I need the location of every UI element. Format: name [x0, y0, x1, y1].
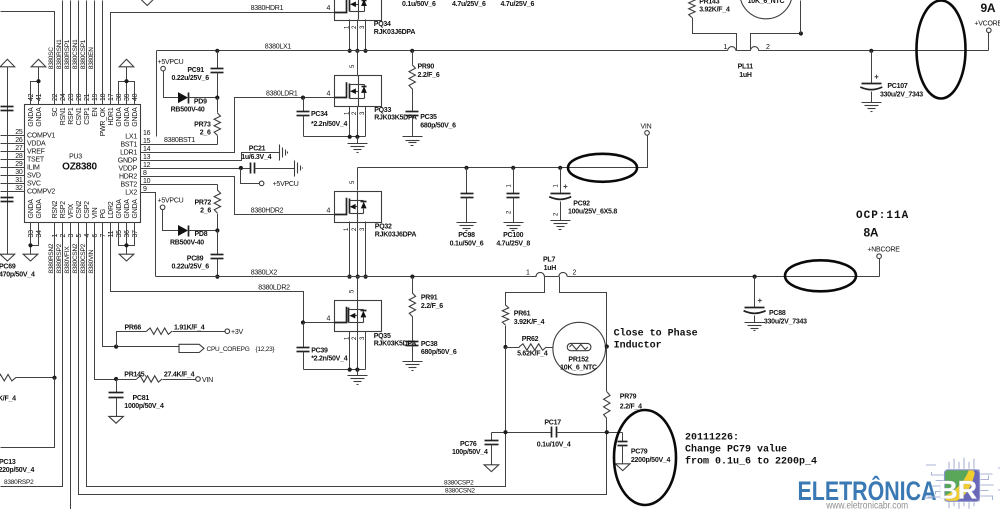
svg-text:20: 20	[76, 93, 83, 101]
svg-text:4.7u/25V_6: 4.7u/25V_6	[452, 1, 486, 8]
svg-text:+5VPCU: +5VPCU	[273, 181, 299, 188]
ground PC92 earth	[551, 220, 571, 222]
thermistor PR152 circle	[553, 322, 606, 375]
wire LX1 rail after PL11	[759, 50, 989, 52]
svg-text:2.2/F_4: 2.2/F_4	[620, 403, 642, 410]
svg-text:33: 33	[28, 230, 35, 238]
svg-text:VDDP: VDDP	[119, 166, 138, 173]
capacitor PC21 on VDDP	[250, 163, 252, 174]
wire LX1 to pin 16	[156, 51, 158, 137]
svg-text:PQ35: PQ35	[374, 333, 391, 340]
svg-text:GNDP: GNDP	[118, 158, 138, 165]
inductor PL7 bumps	[536, 272, 544, 276]
svg-text:2200p/50V_4: 2200p/50V_4	[631, 457, 671, 464]
wire 8380CSP1 pin 21	[86, 1, 88, 105]
svg-text:PC69: PC69	[0, 264, 16, 271]
wire to +VCORE terminal	[988, 33, 990, 51]
svg-text:Change PC79 value: Change PC79 value	[685, 444, 787, 456]
svg-text:PR143: PR143	[699, 0, 720, 5]
svg-text:8380RSN2: 8380RSN2	[48, 243, 55, 273]
svg-text:14: 14	[143, 146, 151, 153]
wire to +NBCORE terminal	[879, 259, 881, 277]
ground PC88 earth	[745, 322, 765, 324]
svg-text:LX1: LX1	[125, 134, 137, 141]
wire NTC drop	[800, 1, 802, 34]
svg-text:1: 1	[52, 234, 59, 238]
svg-text:GNDA: GNDA	[124, 199, 131, 219]
svg-text:RSP1: RSP1	[68, 107, 75, 125]
svg-text:8380CSP2: 8380CSP2	[80, 243, 87, 273]
svg-text:PC38: PC38	[421, 341, 438, 348]
svg-text:LDR2: LDR2	[108, 201, 115, 218]
junction pins 33-34	[28, 243, 32, 247]
wire 8380CSN2 pin 5 down and right	[79, 223, 607, 495]
svg-text:TSET: TSET	[27, 157, 45, 164]
svg-text:2: 2	[573, 270, 577, 277]
svg-text:21: 21	[84, 93, 91, 101]
svg-text:2_6: 2_6	[200, 208, 211, 215]
svg-text:{12,23}: {12,23}	[256, 346, 276, 353]
PU3 left pin numbers	[15, 129, 23, 192]
wire PL7 right sense tap	[560, 277, 607, 347]
junctions PQ35 source	[348, 368, 352, 372]
wire pin 36 GNDA to ground	[126, 223, 128, 255]
thermistor circle phase1 top	[740, 0, 793, 19]
svg-text:BST2: BST2	[120, 182, 137, 189]
svg-text:from 0.1u_6 to 2200p_4: from 0.1u_6 to 2200p_4	[685, 456, 817, 468]
svg-text:27.4K/F_4: 27.4K/F_4	[164, 372, 195, 379]
svg-text:*2.2n/50V_4: *2.2n/50V_4	[311, 356, 348, 363]
svg-text:6: 6	[92, 234, 99, 238]
wire RSN2 exit left	[1, 378, 55, 448]
junction PC88 at LX2 rail	[753, 275, 757, 279]
capacitor PC88 polarized	[754, 277, 756, 308]
highlight ellipse on VIN rail	[568, 154, 637, 182]
svg-text:PR79: PR79	[620, 393, 637, 400]
svg-text:PC89: PC89	[187, 255, 204, 262]
junction PC100	[511, 166, 515, 170]
svg-text:GNDA: GNDA	[132, 107, 139, 127]
wire PR66 branch	[117, 332, 147, 347]
wire PQ32 drain pin 5 to VIN rail	[357, 168, 359, 191]
diode PD9	[178, 92, 188, 103]
svg-text:RB500V-40: RB500V-40	[170, 239, 204, 246]
svg-text:Inductor: Inductor	[614, 339, 662, 351]
ground GNDA top-right (pointing up)	[119, 59, 134, 67]
junction VDDP	[239, 166, 243, 170]
svg-text:PC88: PC88	[769, 310, 786, 317]
svg-text:GNDA: GNDA	[132, 199, 139, 219]
svg-text:GNDA: GNDA	[36, 107, 43, 127]
svg-text:PD9: PD9	[194, 98, 207, 105]
svg-text:PR73: PR73	[194, 121, 211, 128]
svg-text:680p/50V_6: 680p/50V_6	[421, 349, 457, 356]
resistor PR61	[502, 305, 508, 325]
wire PQ35 source to ground rail	[304, 369, 366, 371]
wire PC17 to CSN2 node	[557, 432, 623, 434]
junction PC89 at LX2	[215, 275, 219, 279]
svg-text:8380VFIX: 8380VFIX	[64, 246, 71, 274]
svg-text:GNDA: GNDA	[36, 199, 43, 219]
wires PQ32 pins 1-3 to LX2	[349, 222, 351, 277]
junction PR91 top at LX2	[410, 275, 414, 279]
ground PQ33 earth	[348, 143, 368, 145]
junction PC107 at VCORE rail	[869, 49, 873, 53]
wire GNDP pin 13 to ground	[141, 153, 280, 161]
junction pins 38-39-40	[124, 79, 128, 83]
svg-text:4: 4	[327, 5, 331, 12]
svg-text:22: 22	[52, 93, 59, 101]
ground PC38 earth	[403, 361, 423, 363]
svg-text:VFIX: VFIX	[68, 203, 75, 218]
svg-text:28: 28	[15, 153, 23, 160]
svg-text:VIN: VIN	[202, 377, 213, 384]
svg-text:9A: 9A	[981, 1, 996, 15]
svg-text:26: 26	[15, 137, 23, 144]
terminal VIN top	[645, 131, 650, 136]
junction PR152 right	[605, 344, 609, 348]
svg-text:4: 4	[327, 316, 331, 323]
junction PR61 PR62	[503, 345, 507, 349]
ground PQ35 earth	[348, 375, 368, 377]
inductor PL11 bumps	[728, 47, 736, 51]
capacitor PC81	[116, 380, 118, 393]
svg-text:PC81: PC81	[133, 395, 150, 402]
svg-text:680p/50V_6: 680p/50V_6	[420, 122, 456, 129]
wire LX2 rail after PL7	[568, 276, 880, 278]
svg-text:5.62K/F_4: 5.62K/F_4	[517, 350, 548, 357]
junction PD8 PR72 PC89	[215, 228, 219, 232]
svg-text:SC: SC	[52, 107, 59, 116]
wire PQ35 drain pin 5 to LX2	[357, 277, 359, 301]
wire pin 33 GNDA to ground	[30, 223, 32, 255]
resistor PR91	[412, 277, 414, 294]
terminal +5VPCU phase1	[161, 66, 166, 71]
terminal VIN	[196, 377, 201, 382]
svg-text:PL11: PL11	[738, 63, 754, 70]
svg-text:24: 24	[60, 93, 67, 101]
wire PR61 junction down to CSP2 node	[505, 348, 507, 433]
svg-text:PC100: PC100	[503, 232, 524, 239]
svg-text:RJK03K5DPA: RJK03K5DPA	[374, 340, 417, 347]
svg-text:VIN: VIN	[641, 124, 652, 131]
svg-text:15: 15	[143, 138, 151, 145]
svg-text:PR72: PR72	[194, 199, 211, 206]
ground PC98 earth	[457, 222, 477, 224]
junction pins 35-36-37	[124, 243, 128, 247]
ground GNDA bottom-right	[119, 254, 134, 261]
wire pin 41 GNDA to ground	[38, 67, 40, 105]
svg-text:1uH: 1uH	[739, 72, 752, 79]
svg-text:+3V: +3V	[231, 329, 243, 336]
thermistor PR152 element box	[567, 343, 591, 350]
junction VIN sense	[114, 377, 118, 381]
svg-text:+NBCORE: +NBCORE	[867, 246, 900, 253]
highlight ellipse NBCORE	[785, 260, 856, 291]
ground PC81	[109, 416, 124, 423]
svg-text:PR61: PR61	[514, 311, 531, 318]
svg-text:GNDA: GNDA	[28, 107, 35, 127]
svg-text:PR90: PR90	[418, 64, 435, 71]
output tag CPU_COREPG	[179, 344, 204, 352]
svg-text:PC39: PC39	[311, 348, 328, 355]
svg-text:35: 35	[116, 230, 123, 238]
svg-text:0.1u/10V_4: 0.1u/10V_4	[537, 441, 571, 448]
wire to PQ33 ground	[357, 137, 359, 144]
svg-text:GNDA: GNDA	[28, 199, 35, 219]
capacitor PC91	[217, 51, 219, 69]
svg-text:8380CSN2: 8380CSN2	[445, 488, 475, 495]
ground bottom of left rail	[0, 254, 15, 261]
capacitor PC39	[303, 323, 305, 348]
svg-text:1u/6.3V_4: 1u/6.3V_4	[241, 154, 271, 161]
svg-text:34: 34	[36, 230, 43, 238]
svg-text:100u/25V_6X5.8: 100u/25V_6X5.8	[568, 209, 617, 216]
wire 8380LX2 rail	[156, 276, 537, 278]
svg-text:LDR1: LDR1	[120, 150, 137, 157]
wire PC21 to ground	[255, 168, 295, 170]
capacitor PC79	[622, 433, 624, 442]
svg-text:K/F_4: K/F_4	[0, 395, 16, 402]
wire 8380RSP1 pin 23	[70, 1, 72, 105]
svg-text:2: 2	[766, 44, 770, 51]
svg-text:BR: BR	[939, 477, 978, 505]
svg-text:9: 9	[143, 186, 147, 193]
wire +5VPCU to PD8	[163, 210, 179, 231]
svg-text:RSP2: RSP2	[60, 201, 67, 219]
svg-text:PC92: PC92	[573, 200, 590, 207]
svg-text:1: 1	[526, 270, 530, 277]
wire 8380LDR2 pin 11 down right	[111, 223, 335, 323]
capacitor PC34	[303, 98, 305, 112]
svg-text:20111226:: 20111226:	[685, 433, 739, 444]
svg-text:CSN2: CSN2	[76, 200, 83, 218]
svg-text:PC21: PC21	[249, 146, 266, 153]
svg-text:29: 29	[15, 161, 23, 168]
wire 8380SC from left edge to pin 22	[1, 12, 55, 105]
svg-text:+VCORE: +VCORE	[974, 20, 1000, 27]
svg-text:0.22u/25V_6: 0.22u/25V_6	[172, 264, 210, 271]
svg-text:3.92K/F_4: 3.92K/F_4	[514, 319, 545, 326]
svg-text:0.1u/50V_6: 0.1u/50V_6	[450, 240, 484, 247]
svg-text:10: 10	[143, 178, 151, 185]
svg-text:8380CSP2: 8380CSP2	[444, 479, 474, 486]
junctions PQ32 at LX2	[347, 275, 351, 279]
wire LX1 rail between PL11 bumps	[737, 50, 751, 52]
svg-text:8380EN: 8380EN	[88, 47, 95, 70]
wire pin 34 GNDA jog	[31, 223, 39, 246]
capacitor PC17	[551, 427, 553, 438]
svg-text:1uH: 1uH	[544, 265, 557, 272]
svg-text:0.1u/50V_6: 0.1u/50V_6	[402, 1, 436, 8]
wire CSP2 node to PC17	[492, 432, 552, 434]
left compensation rail vertical	[7, 67, 9, 255]
svg-text:8380RSN1: 8380RSN1	[56, 39, 63, 69]
ground PC79	[615, 464, 630, 471]
ground top of left rail (pointing up)	[0, 59, 15, 67]
svg-text:PC107: PC107	[887, 83, 908, 90]
resistor partial at left edge	[0, 375, 16, 381]
wires PQ33 pins 1-3 down	[349, 107, 351, 137]
terminal +VCORE	[987, 28, 992, 33]
svg-text:4.7u/25V_8: 4.7u/25V_8	[496, 240, 530, 247]
junctions PQ33 source	[348, 135, 352, 139]
svg-text:PU3: PU3	[69, 154, 82, 161]
PU3 right pin names	[118, 134, 138, 197]
svg-text:470p/50V_4: 470p/50V_4	[0, 271, 35, 278]
wire PQ33 source to ground rail	[304, 136, 366, 138]
wire 8380LX1 rail	[157, 50, 728, 52]
capacitor PC107 polarized	[871, 51, 873, 84]
svg-text:8380VIN: 8380VIN	[88, 249, 95, 273]
svg-text:11: 11	[108, 230, 115, 237]
svg-text:HDR2: HDR2	[119, 174, 137, 181]
svg-text:8380RSP2: 8380RSP2	[56, 243, 63, 273]
capacitor PC98	[466, 168, 468, 194]
wire LX2 rail between PL7 bumps	[545, 276, 559, 278]
wire VDDP pin 12	[141, 168, 251, 170]
svg-text:CSP2: CSP2	[84, 201, 91, 219]
wire pin 42 GNDA jog	[31, 82, 39, 105]
svg-text:EN: EN	[92, 107, 99, 116]
capacitor PC100	[513, 168, 515, 194]
svg-text:18: 18	[100, 93, 107, 101]
svg-text:1.91K/F_4: 1.91K/F_4	[174, 324, 205, 331]
svg-text:1000p/50V_4: 1000p/50V_4	[124, 403, 164, 410]
svg-text:COMPV1: COMPV1	[27, 133, 55, 140]
svg-text:PC34: PC34	[311, 111, 328, 118]
svg-text:8380LX2: 8380LX2	[251, 269, 278, 276]
highlight ellipse around PC79	[614, 410, 676, 505]
resistor PR145	[137, 376, 162, 382]
wire 8380BST1 pin 15	[141, 144, 218, 146]
ground PC35 earth	[403, 136, 423, 138]
svg-text:23: 23	[68, 93, 75, 101]
svg-text:CPU_COREPG: CPU_COREPG	[207, 346, 250, 353]
wire to PQ35 ground	[357, 370, 359, 376]
svg-text:8380CSN2: 8380CSN2	[72, 243, 79, 273]
svg-text:2.2/F_6: 2.2/F_6	[418, 72, 440, 79]
junction PC92	[558, 166, 562, 170]
svg-text:8380HDR1: 8380HDR1	[251, 5, 284, 12]
svg-text:8: 8	[143, 170, 147, 177]
svg-text:10K_6_NTC: 10K_6_NTC	[748, 0, 785, 5]
wire 8380CSP2 pin 4 down and right	[87, 223, 506, 487]
svg-text:330u/2V_7343: 330u/2V_7343	[880, 91, 923, 98]
svg-text:13: 13	[143, 154, 151, 161]
svg-text:32: 32	[15, 185, 23, 192]
wire pin 37 GNDA jog	[127, 223, 135, 246]
PU3 bottom pin names	[28, 199, 139, 219]
svg-text:4: 4	[327, 90, 331, 97]
svg-text:8380CSN1: 8380CSN1	[72, 39, 79, 69]
svg-text:RB500V-40: RB500V-40	[171, 106, 205, 113]
resistor PR79	[606, 347, 608, 392]
svg-text:www.eletronicabr.com: www.eletronicabr.com	[825, 501, 908, 509]
capacitor PC35	[412, 89, 414, 112]
svg-text:PC79: PC79	[631, 449, 648, 456]
svg-text:8380HDR2: 8380HDR2	[251, 208, 284, 215]
svg-text:PR91: PR91	[421, 295, 438, 302]
svg-text:2.2/F_6: 2.2/F_6	[421, 303, 443, 310]
terminal +5VPCU VDDP	[259, 181, 264, 186]
svg-text:VIN: VIN	[92, 207, 99, 218]
svg-text:VDDA: VDDA	[27, 141, 46, 148]
wire 8380CSN1 pin 20	[78, 1, 80, 105]
svg-text:PR66: PR66	[125, 324, 142, 331]
wire PR62 to PR152	[547, 347, 553, 349]
wire 8380RSN1 pin 24	[62, 1, 64, 105]
svg-text:8380SC: 8380SC	[48, 47, 55, 70]
svg-text:38: 38	[116, 93, 123, 101]
wire LX2 pin 9 down	[141, 193, 156, 277]
svg-text:8380BST1: 8380BST1	[164, 137, 195, 144]
svg-text:RJK03J6DPA: RJK03J6DPA	[375, 232, 417, 239]
wire pin 35 GNDA jog	[119, 223, 127, 246]
svg-text:8380LDR2: 8380LDR2	[258, 285, 290, 292]
wire pin 38 GNDA jog	[119, 82, 127, 105]
svg-text:4: 4	[84, 234, 91, 238]
diode PD8	[178, 225, 188, 236]
junction PC91 top at LX1	[215, 49, 219, 53]
PU3 bottom pin numbers	[28, 230, 139, 238]
wire PG pin 7 down to CPU_COREPG	[103, 223, 180, 347]
wire PR66 to +3V	[173, 331, 225, 333]
wire 8380HDR1 pin 17 to PQ34 gate	[111, 13, 335, 105]
svg-text:PC35: PC35	[420, 114, 437, 121]
diamond net flag at top	[141, 0, 154, 6]
svg-text:PC76: PC76	[460, 441, 477, 448]
svg-text:2: 2	[60, 234, 67, 238]
svg-text:27: 27	[15, 145, 23, 152]
junction PD9 PC91 PR73	[215, 96, 219, 100]
terminal +NBCORE	[877, 254, 882, 259]
svg-text:OZ8380: OZ8380	[62, 162, 97, 173]
wire 8380EN pin 19	[94, 1, 96, 105]
capacitor PC76	[491, 433, 493, 441]
wire PQ33 drain pin 5	[357, 51, 359, 76]
terminal +3V	[225, 329, 230, 334]
wire 8380VFIX pin 3 down off sheet	[70, 223, 72, 509]
svg-text:PQ34: PQ34	[374, 21, 391, 28]
transistor PQ34	[335, 0, 382, 21]
svg-text:10K_6_NTC: 10K_6_NTC	[560, 365, 597, 372]
junction PR90 top at LX1	[410, 49, 414, 53]
svg-text:GNDA: GNDA	[116, 107, 123, 127]
capacitor PC89	[217, 231, 219, 255]
PU3 right pin numbers	[143, 130, 151, 193]
svg-text:+5VPCU: +5VPCU	[158, 198, 184, 205]
svg-text:30: 30	[15, 169, 23, 176]
wire 8380RSN2 pin 1 down	[54, 223, 56, 378]
svg-text:37: 37	[132, 230, 139, 238]
logo ELETRONICA BR	[700, 0, 1000, 509]
svg-text:PD8: PD8	[195, 231, 208, 238]
resistor PR90	[412, 51, 414, 65]
svg-text:5: 5	[76, 234, 83, 238]
svg-text:3: 3	[68, 234, 75, 238]
wire 8380RSP2 pin 2 down and left to edge	[1, 223, 63, 487]
wire VDDP to +5VPCU	[241, 169, 260, 184]
svg-text:8380LX1: 8380LX1	[265, 44, 292, 51]
wire PL11 left sense tap	[693, 18, 737, 51]
transistor PQ33	[335, 76, 382, 107]
svg-text:42: 42	[28, 93, 35, 101]
transistor PQ35	[335, 301, 382, 332]
svg-text:25: 25	[15, 129, 23, 136]
junction PL11 right sense	[799, 31, 803, 35]
wire VIN rail	[358, 136, 648, 168]
